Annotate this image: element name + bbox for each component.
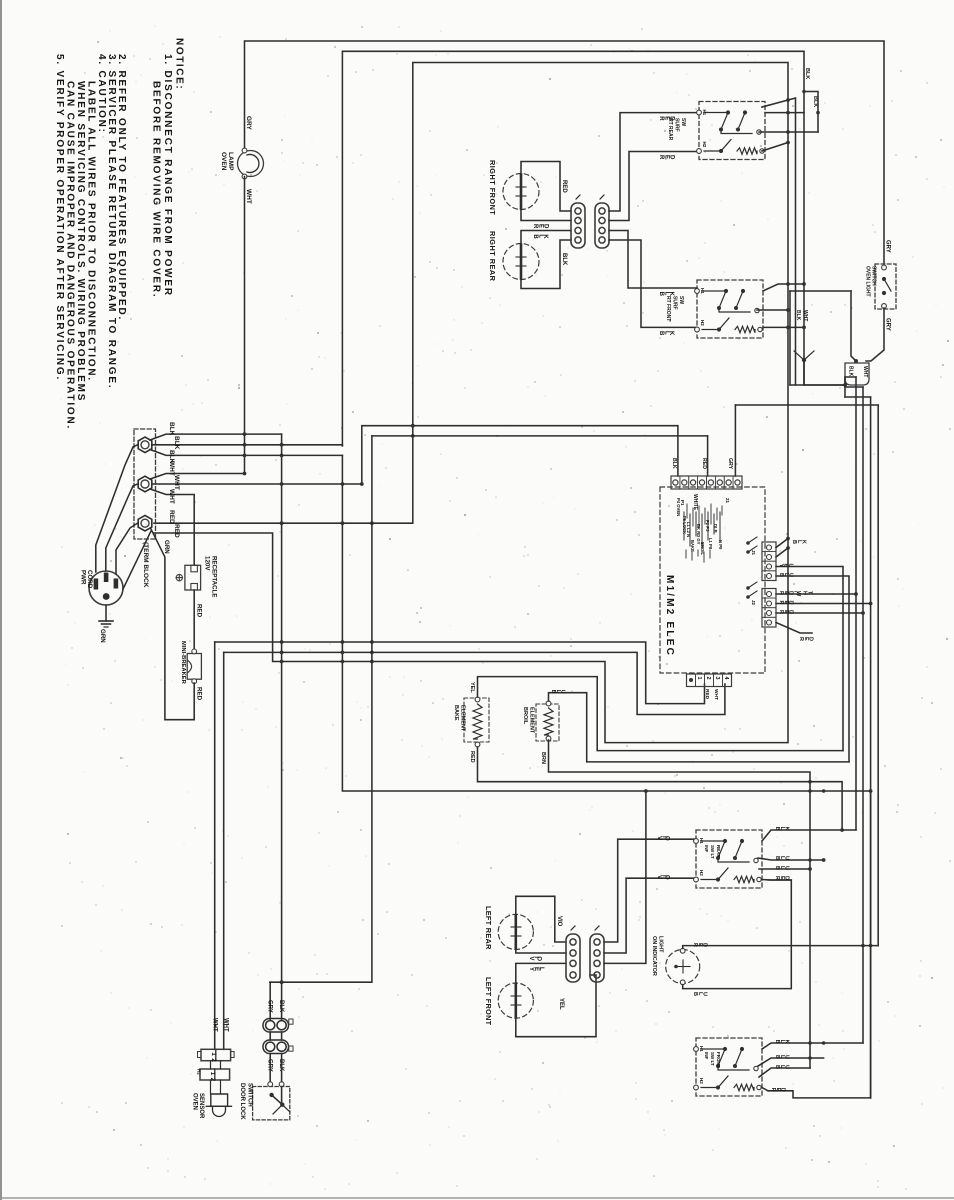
wire door lock to control vertical	[371, 436, 373, 982]
svg-text:BLU: BLU	[774, 1065, 789, 1070]
wire WHT 1 to oven lamp	[150, 474, 245, 480]
terminal block dashed outline	[134, 429, 156, 539]
svg-text:CAN CAUSE IMPROPER AND DANGERO: CAN CAUSE IMPROPER AND DANGEROUS OPERATI…	[65, 81, 76, 430]
junction	[243, 432, 247, 436]
door lock switch dashed box	[253, 1087, 290, 1120]
wire WHT 2	[153, 483, 362, 485]
wire BLU broil top	[549, 693, 850, 762]
svg-text:RED: RED	[701, 458, 707, 469]
svg-text:1: 1	[696, 677, 702, 680]
wire loop right into receptacle	[851, 291, 856, 361]
svg-text:BLK: BLK	[791, 540, 806, 545]
connector strip B	[595, 203, 609, 248]
svg-text:RED: RED	[774, 876, 790, 881]
wire WHT oven lamp neutral	[244, 177, 246, 475]
svg-text:RED: RED	[798, 637, 814, 642]
svg-text:BLK: BLK	[168, 422, 175, 436]
svg-text:BLK: BLK	[278, 1000, 284, 1013]
connector strip D	[590, 934, 604, 982]
door lock switch contacts	[268, 1082, 273, 1087]
wire ladder 4	[877, 405, 879, 946]
control bottom connector	[687, 674, 732, 687]
svg-text:SWITCH: SWITCH	[247, 1083, 253, 1107]
junction	[280, 443, 284, 447]
oven sensor probe	[211, 1094, 228, 1106]
junction	[341, 482, 345, 486]
junction	[243, 454, 247, 458]
control top connector P1	[671, 476, 742, 489]
svg-text:INF: INF	[704, 1052, 709, 1060]
junction	[280, 980, 284, 984]
svg-text:SURF: SURF	[674, 118, 680, 132]
svg-text:3: 3	[714, 677, 720, 680]
svg-text:SURF: SURF	[672, 296, 678, 310]
wire BLK 2	[153, 444, 342, 446]
junction	[280, 521, 284, 525]
wire control GRY top	[735, 404, 878, 406]
svg-text:LEFT FRONT: LEFT FRONT	[484, 977, 493, 1026]
mini-breaker box	[187, 654, 201, 680]
oven lamp receptacle	[845, 363, 869, 385]
svg-text:RED: RED	[532, 224, 548, 229]
svg-text:BRN: BRN	[540, 752, 546, 764]
svg-text:MINI-BREAKER: MINI-BREAKER	[180, 641, 186, 685]
wire GRY bus: oven lamp to oven light switch	[245, 41, 885, 264]
wire BLK to RT front switch coil	[609, 240, 697, 327]
svg-text:H2: H2	[700, 320, 705, 326]
control relay contacts	[746, 541, 750, 545]
wire loop top	[790, 290, 851, 292]
M1/M2 ELEC control dashed box	[660, 487, 765, 673]
wire YEL bake top	[478, 677, 844, 751]
wire YEL strip to top	[604, 791, 646, 963]
broil element	[536, 704, 559, 741]
svg-text:BLK: BLK	[795, 310, 801, 321]
svg-text:SW: SW	[678, 296, 684, 304]
svg-text:BROIL: BROIL	[522, 707, 528, 725]
wire BLU 2 LT rear to LT front	[759, 868, 810, 870]
wire RED bottom right frame	[768, 1091, 871, 1098]
wire ladder 3 top stub	[845, 396, 871, 398]
oven light switch arm	[884, 279, 891, 291]
terminal block lug 2	[138, 476, 152, 492]
wire RED	[776, 603, 871, 605]
wire RED LT rear coil out	[762, 879, 791, 882]
svg-text:H2: H2	[702, 142, 707, 148]
svg-text:YEL: YEL	[558, 998, 564, 1010]
door lock connector pair 2	[263, 1040, 289, 1054]
svg-text:BLK: BLK	[774, 827, 789, 832]
junction	[280, 454, 284, 458]
svg-text:YEL: YEL	[778, 564, 793, 569]
wire YEL left front bottom loop	[516, 975, 596, 1037]
wire BLK right rear bottom loop	[521, 240, 571, 289]
wire bake return	[478, 747, 843, 830]
wire BLK right rear top	[521, 231, 571, 244]
svg-text:WHT: WHT	[245, 189, 252, 204]
wire mini-breaker return loop	[151, 529, 194, 720]
wire BLK to RT front switch L1	[609, 231, 697, 289]
left rear surface element	[498, 914, 533, 949]
svg-text:LAMP: LAMP	[227, 152, 234, 171]
svg-text:OVEN LIGHT: OVEN LIGHT	[865, 266, 871, 297]
120V receptacle box	[185, 565, 201, 590]
svg-text:WHT: WHT	[862, 366, 868, 377]
wire into door lock switch	[269, 1054, 271, 1085]
junction	[243, 443, 247, 447]
junction	[243, 472, 247, 476]
wire BLK LT front out	[762, 1043, 863, 1049]
junction	[360, 482, 364, 486]
svg-text:WHT: WHT	[212, 1018, 218, 1032]
wire BLU indicator loop	[683, 880, 792, 989]
svg-text:LABEL ALL WIRES PRIOR TO DISCO: LABEL ALL WIRES PRIOR TO DISCONNECTION.	[86, 81, 97, 382]
svg-text:GRY: GRY	[885, 318, 891, 331]
wire BLK 3 lower run	[342, 455, 870, 791]
power cord plug	[89, 571, 123, 605]
junction	[280, 651, 284, 655]
svg-text:DOOR LOCK: DOOR LOCK	[239, 1083, 245, 1120]
svg-text:120V: 120V	[204, 556, 211, 571]
junction	[370, 660, 374, 664]
svg-text:21: 21	[725, 498, 730, 504]
svg-text:1. DISCONNECT RANGE FROM POWE: 1. DISCONNECT RANGE FROM POWER	[162, 54, 173, 297]
svg-text:WHT: WHT	[168, 461, 175, 476]
wire door lock to control horizontal	[372, 435, 708, 437]
svg-text:GRY: GRY	[727, 458, 733, 470]
wire YEL bake feed	[776, 567, 843, 751]
junction	[341, 660, 345, 664]
wire VIO to LT rear coil	[604, 878, 695, 953]
wire RED indicator to ladder	[683, 946, 879, 949]
wire RED LT front coil out	[762, 1088, 768, 1091]
wire RED 2	[776, 612, 863, 614]
svg-text:GRY: GRY	[885, 240, 891, 253]
svg-text:RT FRONT: RT FRONT	[665, 296, 671, 321]
svg-text:H2: H2	[699, 870, 704, 876]
svg-text:BLU: BLU	[774, 1055, 789, 1060]
junction	[280, 660, 284, 664]
svg-text:VIO: VIO	[556, 916, 562, 927]
wire BLU LT front in	[758, 1058, 824, 1066]
control side connector J1	[762, 542, 776, 581]
left front surface element	[498, 983, 533, 1018]
wire RED to RT rear switch coil	[609, 152, 699, 221]
svg-text:SW LT: SW LT	[710, 1052, 715, 1066]
wire RED bus loop	[154, 63, 788, 743]
wire RED/WHT	[776, 593, 856, 595]
on indicator light	[666, 950, 700, 984]
wire oven sensor 2 to control	[224, 652, 725, 714]
wire BLK bus 2	[342, 51, 804, 446]
svg-text:PWR: PWR	[80, 570, 87, 585]
ground symbol	[105, 605, 107, 621]
svg-text:RECEPTACLE: RECEPTACLE	[211, 556, 218, 597]
oven lamp	[238, 151, 264, 177]
svg-text:BLU: BLU	[692, 992, 707, 997]
wire RED 3	[776, 623, 812, 634]
svg-text:BLK: BLK	[804, 68, 810, 79]
wire GRY door lock drop	[269, 982, 271, 1020]
svg-text:RED: RED	[561, 180, 567, 193]
svg-text:1: 1	[210, 1052, 217, 1056]
svg-text:RED: RED	[658, 155, 674, 160]
svg-text:GRN: GRN	[163, 540, 170, 554]
svg-text:BLK: BLK	[774, 1040, 789, 1045]
svg-text:2: 2	[705, 677, 711, 680]
svg-text:RED: RED	[196, 604, 203, 618]
infinite switch LT REAR	[696, 830, 762, 888]
wire RED to RT rear switch L1	[609, 113, 699, 211]
svg-text:BLU: BLU	[778, 573, 793, 578]
svg-text:RED: RED	[692, 943, 708, 948]
wire ladder 1 top stub	[845, 376, 856, 378]
svg-text:GRY: GRY	[266, 1000, 272, 1013]
infinite switch LT FRONT	[696, 1038, 762, 1096]
wire control to RED bus	[776, 539, 788, 548]
svg-text:BAKE: BAKE	[453, 705, 459, 721]
svg-text:LEFT REAR: LEFT REAR	[484, 906, 493, 950]
wire RT rear switch L2 to BLK bus	[765, 112, 804, 114]
oven light switch dashed box	[875, 264, 896, 309]
svg-text:RED: RED	[778, 601, 794, 606]
svg-text:NOTICE:: NOTICE:	[174, 38, 185, 90]
svg-text:RED: RED	[778, 610, 794, 615]
svg-text:BLU: BLU	[550, 690, 565, 695]
wire BLU 2 LT front in	[759, 1068, 810, 1077]
wire RT rear pilot tap	[759, 131, 818, 133]
oven sensor connector blocks	[201, 1049, 231, 1060]
svg-text:ON INDICATOR: ON INDICATOR	[651, 936, 657, 976]
connector strip C	[566, 934, 580, 982]
svg-text:BLK: BLK	[848, 366, 854, 377]
wire BLK 1 to door lock	[150, 434, 282, 440]
svg-text:CORD: CORD	[86, 570, 93, 589]
svg-text:L1 P8: L1 P8	[708, 538, 713, 550]
svg-text:GRY: GRY	[245, 116, 252, 131]
svg-text:RT REAR: RT REAR	[667, 118, 673, 141]
svg-text:WHT: WHT	[802, 310, 808, 321]
svg-text:RED: RED	[704, 689, 710, 700]
wire VIO left rear top loop	[516, 896, 566, 942]
svg-text:RED: RED	[196, 687, 203, 701]
junction	[370, 640, 374, 644]
junction	[370, 651, 374, 655]
wire WHT oven sensor drop 2	[223, 652, 225, 1049]
wire VIO to LT rear switch	[604, 839, 695, 942]
wire BLU LT rear to LT front	[758, 858, 824, 860]
svg-text:R2: R2	[197, 1069, 202, 1075]
wire BLU broil feed	[776, 576, 849, 762]
junction	[411, 434, 415, 438]
wire power cord to lug 1	[96, 445, 138, 572]
junction	[341, 521, 345, 525]
wire YEL left front top	[516, 963, 566, 983]
svg-text:RED: RED	[770, 1088, 786, 1093]
svg-text:BEFORE REMOVING WIRE COVER.: BEFORE REMOVING WIRE COVER.	[151, 81, 162, 299]
wire RT rear switch arm down right loop	[762, 98, 796, 385]
wire VIO left rear bottom	[516, 950, 566, 954]
wire power cord to lug 2	[106, 484, 138, 571]
wire BLK door lock drop	[281, 434, 283, 1020]
right rear surface element	[503, 244, 539, 280]
wire RED right front top loop	[521, 162, 571, 212]
infinite switch RT FRONT	[697, 280, 763, 338]
svg-text:YEL: YEL	[469, 682, 475, 693]
svg-text:OVEN: OVEN	[192, 1093, 198, 1110]
svg-text:GRN: GRN	[99, 629, 106, 643]
svg-text:WHT: WHT	[713, 689, 719, 700]
wire ladder 1	[855, 377, 857, 830]
svg-text:WHT: WHT	[223, 1018, 229, 1032]
wire broil return to LT front	[549, 740, 811, 1068]
control side connector J2	[762, 589, 776, 628]
svg-text:ELEMENT: ELEMENT	[529, 707, 535, 734]
junction	[341, 651, 345, 655]
svg-text:RED: RED	[469, 751, 475, 763]
wire BLK 3	[150, 450, 342, 456]
wire oven light switch to receptacle	[866, 308, 884, 361]
svg-text:BLU: BLU	[774, 866, 789, 871]
wire frame right	[870, 791, 872, 1098]
wire RT rear coil out	[762, 143, 788, 152]
svg-text:BLU: BLU	[774, 856, 789, 861]
wire drop into control connector	[707, 436, 709, 476]
wire RED right front bottom	[521, 210, 571, 221]
wire RT front switch to loop	[763, 284, 804, 291]
wire oven sensor 1 to control	[215, 642, 705, 704]
wire GRN power cord ground lead	[123, 531, 151, 590]
wire ladder 3	[870, 397, 872, 1098]
svg-text:BLK: BLK	[532, 234, 548, 239]
svg-text:WHEN SERVICING CONTROLS. WIRIN: WHEN SERVICING CONTROLS. WIRING PROBLEMS	[75, 81, 86, 402]
door lock connector pair 1	[263, 1019, 289, 1033]
junction	[370, 521, 374, 525]
wire RT front pilot tap	[757, 309, 788, 311]
wire RT front coil out	[763, 326, 804, 328]
right front surface element	[503, 174, 539, 210]
svg-text:RED: RED	[173, 524, 180, 538]
infinite switch RT REAR	[699, 102, 765, 160]
svg-text:P4 OVEN: P4 OVEN	[676, 498, 681, 516]
wire ladder top join	[844, 377, 846, 397]
svg-text:INF: INF	[704, 845, 709, 853]
svg-text:RED: RED	[168, 510, 175, 524]
wire RED receptacle to mini-breaker	[193, 590, 195, 649]
svg-text:H2: H2	[699, 1078, 704, 1084]
wire control to RED bus 2	[776, 548, 788, 557]
svg-text:J1: J1	[751, 550, 756, 556]
svg-text:BLK: BLK	[561, 253, 567, 266]
svg-text:SW: SW	[680, 118, 686, 126]
junction	[280, 482, 284, 486]
svg-text:RIGHT FRONT: RIGHT FRONT	[488, 160, 497, 215]
connector strip A	[571, 203, 585, 248]
svg-text:SW LT: SW LT	[710, 845, 715, 859]
svg-text:4. CAUTION:: 4. CAUTION:	[96, 54, 107, 134]
svg-text:BAKE: BAKE	[690, 540, 695, 552]
scan edge bottom	[0, 1197, 954, 1199]
bake element	[464, 698, 489, 742]
wire WHT 3 to receptacle	[150, 489, 194, 565]
svg-text:SENSOR: SENSOR	[198, 1093, 204, 1119]
junction	[411, 424, 415, 428]
svg-text:LIGHT: LIGHT	[658, 936, 664, 953]
svg-text:REAR: REAR	[716, 845, 721, 859]
terminal block lug 1	[138, 437, 152, 453]
svg-text:BLK: BLK	[173, 436, 180, 450]
svg-text:WHT: WHT	[168, 489, 175, 504]
svg-text:OVEN: OVEN	[220, 152, 227, 171]
wire BLK LT rear out	[762, 830, 856, 841]
wire power cord to lug 3	[116, 523, 138, 574]
wire WHT oven sensor drop 1	[214, 642, 216, 1049]
svg-text:SWITCH: SWITCH	[871, 266, 877, 286]
svg-text:1: 1	[209, 1072, 216, 1076]
svg-text:RIGHT REAR: RIGHT REAR	[488, 231, 497, 282]
junction node right loop	[804, 351, 814, 360]
wire to oven lamp receptacle	[804, 360, 845, 385]
wire ladder 2	[862, 387, 864, 1043]
wire loop left	[789, 291, 791, 385]
svg-text:BLK: BLK	[658, 331, 674, 336]
svg-text:ELEMENT: ELEMENT	[460, 705, 466, 732]
svg-text:WHT: WHT	[173, 475, 180, 490]
svg-text:M1/M2 ELEC: M1/M2 ELEC	[664, 575, 675, 657]
junction	[341, 640, 345, 644]
wire ladder 2 top stub	[845, 386, 863, 388]
svg-text:5. VERIFY PROPER OPERATION AF: 5. VERIFY PROPER OPERATION AFTER SERVICI…	[54, 54, 65, 381]
wire WHT 2 to control	[362, 426, 678, 484]
junction	[280, 640, 284, 644]
svg-text:BLK: BLK	[671, 458, 677, 469]
wire BLK jog	[804, 92, 818, 133]
scan edge left	[0, 0, 2, 1200]
svg-text:YEL: YEL	[528, 967, 544, 972]
svg-text:BLK: BLK	[812, 96, 818, 107]
terminal block lug 3	[138, 515, 152, 531]
svg-text:J2: J2	[751, 600, 756, 606]
wire GRY door lock horizontal	[270, 981, 372, 983]
svg-text:FRONT: FRONT	[716, 1052, 721, 1068]
